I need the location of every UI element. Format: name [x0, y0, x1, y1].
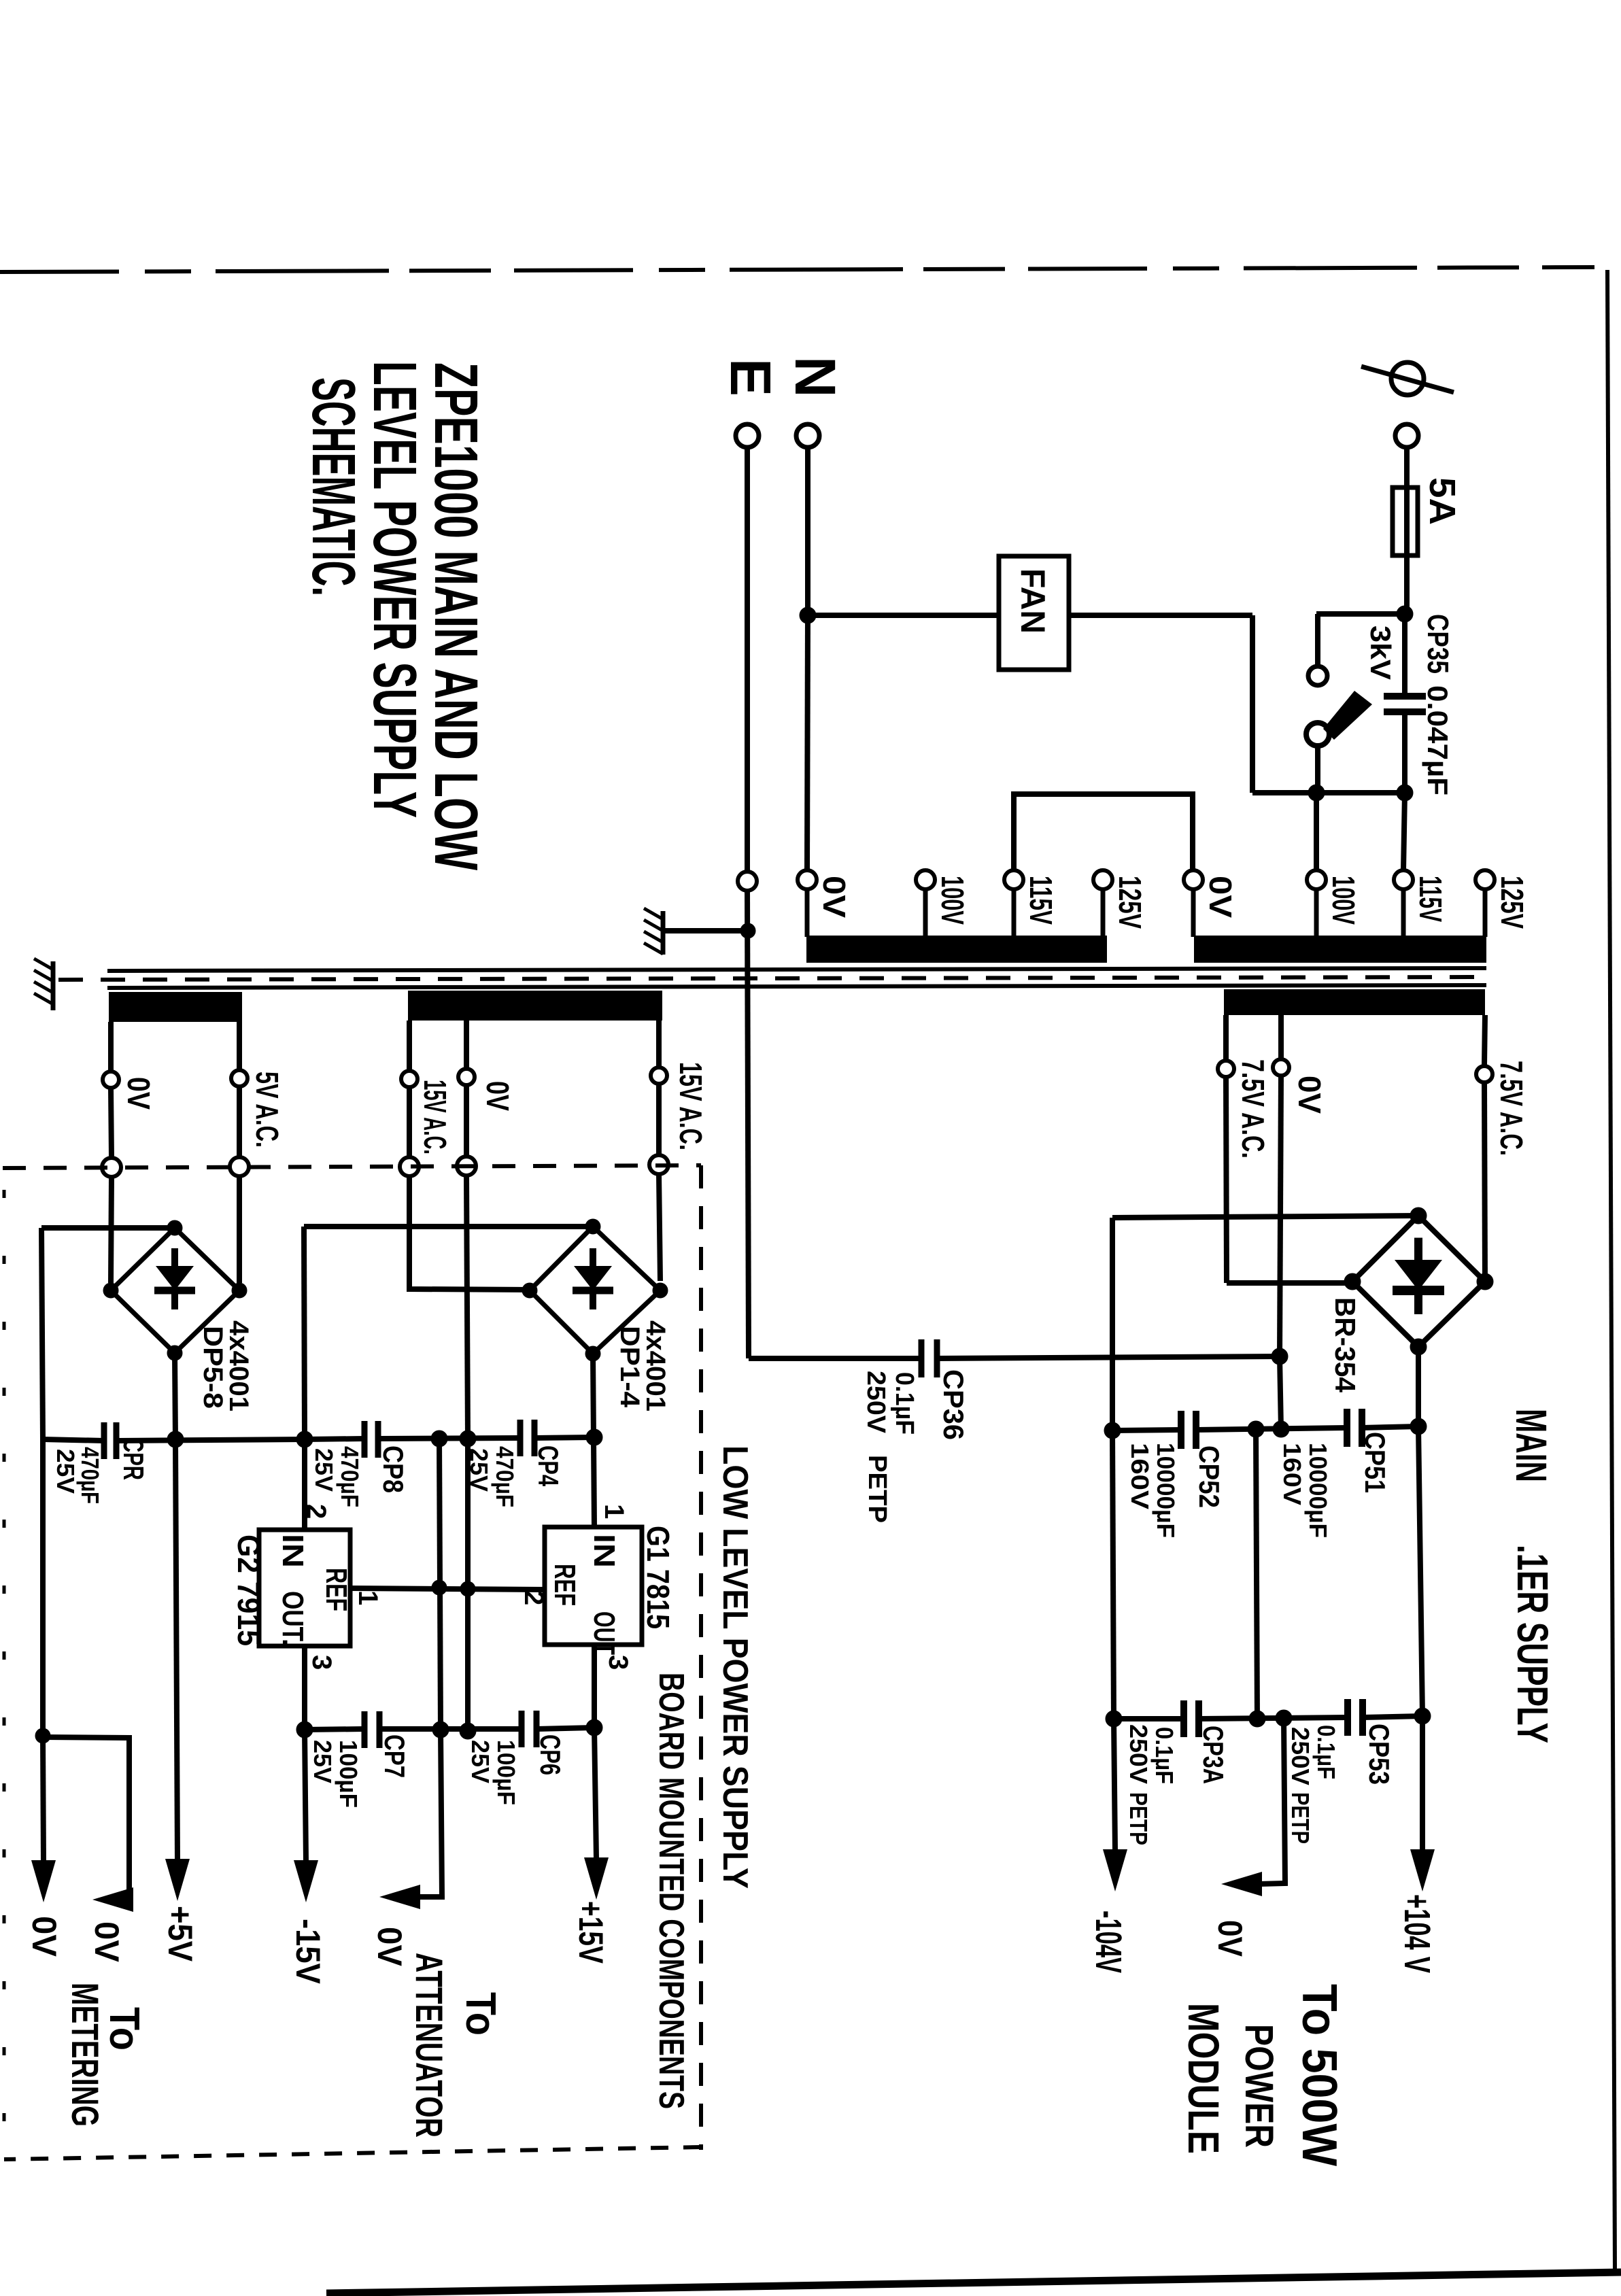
svg-text:15V A.C.: 15V A.C. — [417, 1080, 453, 1154]
svg-text:PETP: PETP — [863, 1455, 891, 1523]
bridge rectifier DP5-8 — [111, 1228, 239, 1353]
tap 7.5V A.C. right terminal — [1476, 1066, 1492, 1082]
wire L to junction — [1404, 446, 1410, 614]
svg-text:7.5V A.C.: 7.5V A.C. — [1494, 1061, 1529, 1156]
svg-text:125V: 125V — [1112, 876, 1148, 929]
svg-text:BOARD MOUNTED COMPONENTS: BOARD MOUNTED COMPONENTS — [651, 1673, 691, 2109]
bridge rectifier BR354 — [1352, 1216, 1485, 1347]
wire rail CPR to G2 — [118, 1439, 305, 1441]
node bridge corner — [653, 1283, 668, 1298]
wire fan to corner — [1069, 613, 1252, 618]
wire tap 115V stub — [1401, 889, 1406, 937]
wire -15V down — [305, 1730, 306, 1862]
svg-text:SCHEMATIC.: SCHEMATIC. — [299, 377, 367, 596]
svg-text:LOW LEVEL POWER SUPPLY: LOW LEVEL POWER SUPPLY — [715, 1445, 755, 1889]
svg-text:E: E — [719, 358, 783, 396]
wire tap 100V stub — [923, 889, 928, 937]
svg-text:REF: REF — [320, 1568, 353, 1611]
bridge rectifier DP1-4 — [530, 1227, 660, 1354]
node 0V rail b — [1273, 1421, 1289, 1437]
arrow 0V attenuator — [379, 1885, 420, 1909]
wire junction to CP35 — [1402, 614, 1407, 696]
svg-text:.1ER SUPPLY: .1ER SUPPLY — [1508, 1545, 1557, 1743]
node +15V out — [586, 1719, 602, 1736]
svg-text:5A: 5A — [1422, 477, 1463, 525]
node ref a — [432, 1580, 447, 1595]
wire CP6 to G1 out — [536, 1728, 594, 1729]
svg-text:5V A.C.: 5V A.C. — [250, 1072, 285, 1148]
tap 125V primary terminal — [1475, 870, 1495, 889]
svg-text:CP52: CP52 — [1193, 1445, 1225, 1508]
wire bridge neg out left — [1112, 1216, 1418, 1218]
regulator G1 7815 — [545, 1527, 642, 1645]
wire N down — [805, 446, 810, 615]
wire CP36 to 0V node — [937, 1356, 1280, 1358]
wire pin to bridge ac1 — [111, 1177, 112, 1283]
transformer T1 secondary 0-5V winding — [109, 992, 242, 1022]
connector pin — [102, 1158, 121, 1177]
wire tap 100V stub — [1314, 889, 1319, 937]
arrow 0V metering — [31, 1860, 56, 1902]
wire E to CP36 row — [747, 891, 749, 1358]
svg-text:160V: 160V — [1126, 1443, 1154, 1509]
wire 0V to pin — [464, 1085, 469, 1156]
wire 15V to pin — [407, 1087, 412, 1157]
capacitor CP4 470uF 25V — [520, 1420, 534, 1456]
tap 115V primary terminal — [1394, 870, 1413, 889]
wire +5V down — [175, 1439, 177, 1860]
svg-text:CP7: CP7 — [379, 1734, 411, 1778]
transformer T1 primary winding A — [806, 936, 1107, 963]
wire pin to bridge ac2 — [237, 1176, 242, 1283]
svg-text:100µF: 100µF — [492, 1740, 520, 1805]
wire CP3A to CP53 — [1199, 1717, 1348, 1719]
node bridge corner — [232, 1283, 247, 1298]
fan motor FAN — [999, 556, 1069, 670]
wire tap 0V stub — [805, 889, 810, 937]
svg-text:To: To — [101, 2007, 148, 2051]
wire CP35 to node — [1402, 712, 1407, 793]
svg-text:100V: 100V — [1326, 876, 1361, 925]
connector pin — [649, 1155, 668, 1174]
svg-text:DP5-8: DP5-8 — [198, 1326, 228, 1409]
capacitor CP52 10000uF 160V — [1181, 1411, 1196, 1449]
node 0V bottom a — [1249, 1711, 1265, 1727]
svg-text:160V: 160V — [1278, 1443, 1306, 1505]
wire 0V mid stub — [1278, 1015, 1284, 1058]
svg-text:25V: 25V — [310, 1448, 338, 1492]
tap 15V A.C. right terminal — [651, 1067, 667, 1084]
connector pin — [230, 1157, 249, 1176]
svg-text:0.1µF: 0.1µF — [1150, 1727, 1178, 1784]
svg-text:CP6: CP6 — [534, 1734, 566, 1775]
terminal L — [1395, 424, 1418, 447]
wire 5V stub — [237, 1022, 242, 1069]
wire +104V vertical — [1418, 1426, 1422, 1716]
regulator G2 7915 — [259, 1530, 350, 1646]
wire 15V right stub — [656, 1021, 662, 1066]
wire pin 15V to bridge ac2 — [659, 1174, 660, 1281]
svg-text:0.1µF: 0.1µF — [890, 1372, 919, 1435]
svg-text:N: N — [783, 356, 847, 398]
svg-text:470µF: 470µF — [76, 1447, 104, 1504]
node bridge corner — [1410, 1339, 1427, 1355]
svg-text:To 500W: To 500W — [1292, 1984, 1346, 2166]
svg-text:MODULE: MODULE — [1179, 2003, 1228, 2154]
svg-text:POWER: POWER — [1237, 2024, 1281, 2148]
transformer T1 secondary 7.5-0-7.5V winding — [1224, 989, 1485, 1015]
wire rail to CP3A — [1114, 1716, 1184, 1721]
ground screen symbol — [34, 959, 53, 1010]
node 0V bottom b — [1276, 1710, 1292, 1726]
capacitor CP35 0.047uF 3kV — [1384, 696, 1426, 712]
svg-text:CP35: CP35 — [1421, 614, 1454, 674]
svg-text:100V: 100V — [935, 876, 970, 925]
wire E to CP36 — [749, 1356, 921, 1361]
wire +104V to arrow — [1420, 1716, 1425, 1851]
tap 5V A.C. terminal — [231, 1070, 248, 1086]
wire to chassis ground — [663, 928, 748, 933]
wire node row — [1252, 790, 1405, 795]
border bottom line — [326, 2272, 1621, 2293]
capacitor CP53 0.1uF 250V — [1348, 1699, 1363, 1736]
svg-text:3: 3 — [603, 1655, 633, 1670]
svg-text:0V: 0V — [817, 876, 852, 918]
svg-text:0V: 0V — [480, 1081, 515, 1111]
svg-text:+104 V: +104 V — [1397, 1894, 1437, 1973]
arrow +5V — [165, 1859, 190, 1901]
svg-text:CP4: CP4 — [532, 1445, 564, 1486]
diode symbol DP5-8 — [154, 1248, 195, 1309]
fuse FS1 5A — [1393, 487, 1418, 555]
svg-text:PETP: PETP — [1125, 1792, 1153, 1845]
node bridge corner — [167, 1346, 182, 1360]
svg-text:250V: 250V — [1125, 1724, 1153, 1784]
node -104V rail — [1104, 1422, 1121, 1439]
wire to 115V tap — [1403, 793, 1405, 870]
tap 0V primary terminal — [798, 870, 817, 889]
svg-text:ZPE1000 MAIN AND LOW: ZPE1000 MAIN AND LOW — [422, 362, 490, 870]
svg-text:25V: 25V — [52, 1449, 80, 1494]
connector pin — [457, 1156, 476, 1176]
svg-text:CPR: CPR — [118, 1438, 150, 1480]
svg-text:0V: 0V — [1203, 876, 1238, 918]
node +104V bottom — [1414, 1708, 1431, 1724]
svg-text:FAN: FAN — [1014, 568, 1052, 634]
wire -104V to arrow — [1114, 1719, 1115, 1851]
svg-text:0V: 0V — [371, 1927, 409, 1967]
wire CP52 to CP51 — [1196, 1428, 1347, 1430]
svg-text:DP1-4: DP1-4 — [615, 1326, 645, 1408]
wire 15V to pin — [656, 1084, 662, 1155]
node +104V rail — [1410, 1418, 1427, 1435]
arrow +104V — [1410, 1849, 1435, 1891]
capacitor CP51 10000uF 160V — [1347, 1409, 1362, 1447]
wire to switch — [1316, 611, 1405, 617]
wire CP53 to +rail — [1363, 1716, 1422, 1717]
node 0V E junction — [1272, 1348, 1288, 1365]
wire G1 out down — [592, 1645, 597, 1728]
node -104V bottom — [1106, 1711, 1122, 1727]
wire bridge pos down — [1416, 1347, 1421, 1426]
svg-text:To: To — [457, 1992, 504, 2036]
wire 0V branch 2 — [43, 1737, 129, 1900]
arrow 0V metering 2 — [92, 1887, 133, 1912]
svg-text:G2 7915: G2 7915 — [231, 1535, 267, 1646]
svg-text:3: 3 — [307, 1655, 337, 1670]
wire 15V left stub — [407, 1021, 412, 1069]
wire 7.5V right stub — [1484, 1015, 1485, 1065]
tap 15V A.C. left terminal — [401, 1071, 417, 1087]
wire 0V down — [40, 1439, 46, 1736]
svg-text:115V: 115V — [1413, 876, 1448, 922]
wire 0V strut — [1256, 1429, 1257, 1719]
node L2 — [1397, 785, 1413, 801]
svg-text:25V: 25V — [466, 1740, 494, 1783]
svg-text:+15V: +15V — [572, 1901, 610, 1964]
wire -104V down — [1112, 1430, 1114, 1719]
svg-text:115V: 115V — [1023, 876, 1059, 925]
svg-text:0V: 0V — [1211, 1920, 1249, 1957]
wire fan corner down — [1250, 615, 1255, 793]
tap 125V primary terminal — [1093, 870, 1112, 889]
svg-text:470µF: 470µF — [336, 1446, 364, 1507]
capacitor CP36 0.1uF 250V — [921, 1339, 937, 1377]
wire tap 125V stub — [1483, 889, 1488, 937]
node bridge corner — [522, 1283, 537, 1298]
node L1 — [1397, 606, 1413, 622]
wire neg rail down — [41, 1228, 43, 1439]
transformer T1 core — [58, 968, 1486, 988]
border right line — [1607, 270, 1615, 2271]
node G2 in — [296, 1431, 313, 1447]
svg-text:IN: IN — [587, 1534, 621, 1568]
board boundary bottom — [4, 2147, 701, 2159]
node bridge corner — [167, 1220, 182, 1235]
wire 0V vertical a — [439, 1439, 441, 1730]
wire rail G2 out to CP7 — [305, 1729, 364, 1730]
svg-text:0.047µF: 0.047µF — [1422, 685, 1454, 795]
svg-text:IN: IN — [276, 1534, 309, 1568]
wire CP8 to CP4 — [378, 1438, 520, 1439]
wire to fan — [808, 613, 999, 618]
svg-text:250V: 250V — [1286, 1727, 1314, 1785]
wire CP7 to CP6 — [379, 1726, 522, 1732]
svg-text:OUT.: OUT. — [276, 1591, 309, 1645]
svg-text:250V: 250V — [861, 1371, 890, 1434]
wire CP4 to G1 in — [534, 1437, 594, 1438]
svg-text:3kV: 3kV — [1365, 626, 1397, 680]
wire 0V stub — [464, 1021, 469, 1067]
switch S1 pivot contact — [1306, 723, 1329, 746]
wire bridge neg out — [41, 1225, 175, 1231]
wire 7.5V right to bridge ac2 — [1484, 1082, 1485, 1282]
wire 0V pin down to rail — [466, 1176, 468, 1439]
wire G2 in — [302, 1439, 307, 1530]
wire 7.5V left down — [1226, 1077, 1227, 1283]
node SW2 — [1308, 785, 1325, 801]
wire 0V attenuator — [420, 1730, 442, 1897]
terminal E — [736, 424, 759, 447]
svg-text:METERING: METERING — [64, 1983, 107, 2127]
board boundary left — [3, 1190, 6, 2142]
svg-text:125V: 125V — [1495, 876, 1530, 929]
svg-text:1: 1 — [599, 1504, 629, 1519]
wire G2 out down — [302, 1646, 307, 1730]
wire to 100V tap — [1314, 793, 1319, 870]
wire switch bottom — [1315, 746, 1320, 793]
svg-text:0V: 0V — [1292, 1076, 1327, 1114]
wire 7.5V left stub — [1223, 1015, 1229, 1059]
svg-text:BR-354: BR-354 — [1329, 1297, 1361, 1393]
wire 5V to pin — [237, 1086, 242, 1157]
svg-text:2: 2 — [519, 1590, 549, 1605]
wire bridge neg out left — [304, 1224, 593, 1229]
node bridge corner — [1410, 1207, 1427, 1224]
wire 0V to pin — [111, 1088, 112, 1158]
svg-text:CP36: CP36 — [938, 1369, 970, 1440]
wire to CPR — [43, 1439, 104, 1441]
capacitor CP8 470uF 25V — [364, 1421, 378, 1458]
node G1 in — [586, 1429, 602, 1445]
svg-text:470µF: 470µF — [491, 1446, 519, 1507]
wire pin 15V to bridge ac1 — [409, 1176, 530, 1290]
svg-text:CP3A: CP3A — [1197, 1726, 1229, 1784]
svg-text:G1 7815: G1 7815 — [641, 1526, 676, 1629]
svg-text:0.1µF: 0.1µF — [1312, 1725, 1340, 1779]
wire CP51 to +rail — [1362, 1426, 1418, 1428]
capacitor CP6 100uF 25V — [522, 1711, 536, 1747]
wire bridge pos out down — [175, 1353, 175, 1439]
tap 100V primary terminal — [916, 870, 935, 889]
wire +15V down — [594, 1728, 596, 1859]
node 0V rail b — [460, 1723, 476, 1739]
svg-text:0V: 0V — [88, 1921, 126, 1963]
svg-text:CP8: CP8 — [377, 1445, 409, 1493]
node E ground — [740, 923, 755, 938]
ground chassis symbol — [644, 908, 663, 955]
wire 0V vertical b — [465, 1439, 471, 1731]
node N1 — [800, 607, 816, 623]
node bridge corner — [103, 1283, 118, 1298]
node 0V branch — [35, 1728, 50, 1743]
node ref b — [460, 1581, 475, 1596]
tap 7.5V A.C. left terminal — [1218, 1061, 1234, 1077]
live phase terminal symbol (phi) — [1361, 362, 1454, 395]
node 0V rail a — [432, 1721, 449, 1738]
arrow -104V — [1103, 1849, 1127, 1891]
capacitor CP3A 0.1uF 250V — [1184, 1700, 1199, 1737]
node bridge corner — [1477, 1273, 1493, 1290]
wire to bridge ac1 — [1227, 1280, 1352, 1286]
board boundary top — [3, 1165, 701, 1168]
wire jumper 115V-0V — [1014, 794, 1193, 870]
wire switch top — [1315, 614, 1320, 666]
node bridge corner — [585, 1346, 600, 1361]
node bridge corner — [585, 1219, 600, 1234]
node -15V out — [296, 1721, 313, 1738]
svg-text:LEVEL POWER SUPPLY: LEVEL POWER SUPPLY — [360, 361, 428, 818]
svg-text:CP51: CP51 — [1359, 1432, 1391, 1493]
tap 115V primary terminal — [1004, 870, 1023, 889]
capacitor CPR 470uF 25V — [104, 1422, 116, 1459]
node 0V a — [431, 1430, 447, 1447]
svg-text:1: 1 — [353, 1590, 383, 1605]
wire tap 0V stub — [1191, 889, 1196, 937]
svg-text:2: 2 — [301, 1504, 331, 1519]
wire neg down to G2 in — [304, 1227, 305, 1439]
wire 0V down — [1280, 1076, 1281, 1356]
node 0V b — [460, 1430, 476, 1447]
tap 0V terminal mid — [458, 1069, 475, 1085]
switch S1 arm — [1323, 691, 1372, 740]
svg-text:PETP: PETP — [1286, 1792, 1314, 1844]
wire REF line — [350, 1588, 545, 1590]
node 0V rail a — [1248, 1421, 1264, 1437]
svg-text:10000µF: 10000µF — [1152, 1443, 1180, 1538]
wire 0V to rail — [1280, 1356, 1281, 1429]
tap 0V primary terminal — [1184, 870, 1203, 889]
svg-text:0V: 0V — [121, 1077, 156, 1110]
transformer T1 primary winding B — [1194, 936, 1486, 963]
svg-text:-15V: -15V — [289, 1919, 327, 1985]
capacitor CP7 100uF 25V — [364, 1711, 379, 1748]
tap 0V mid terminal — [1273, 1059, 1289, 1076]
connector pin — [400, 1157, 419, 1176]
terminal E screen pin — [738, 872, 757, 891]
wire E down — [745, 446, 750, 872]
svg-text:ATTENUATOR: ATTENUATOR — [408, 1953, 451, 2138]
arrow +15V — [584, 1857, 609, 1900]
svg-text:+5V: +5V — [161, 1906, 199, 1962]
node +5V rail — [167, 1431, 184, 1447]
svg-text:25V: 25V — [309, 1740, 337, 1783]
node bridge corner — [1344, 1273, 1361, 1290]
wire to CP8 — [305, 1439, 364, 1439]
svg-text:REF: REF — [548, 1564, 581, 1606]
wire rail to CP52 — [1112, 1430, 1181, 1430]
diode symbol DP1-4 — [573, 1248, 613, 1309]
tap 0V terminal — [103, 1072, 119, 1088]
wire 0V stub — [108, 1022, 114, 1070]
svg-text:7.5V A.C.: 7.5V A.C. — [1235, 1059, 1271, 1159]
svg-text:0V: 0V — [25, 1916, 63, 1957]
wire 0V to arrow — [1259, 1718, 1285, 1884]
wire 0V to arrow — [43, 1736, 44, 1862]
svg-text:CP53: CP53 — [1363, 1724, 1395, 1785]
terminal N — [796, 424, 819, 447]
svg-text:100µF: 100µF — [335, 1740, 362, 1808]
svg-text:10000µF: 10000µF — [1304, 1443, 1332, 1538]
wire neg down — [1110, 1218, 1115, 1430]
switch S1 top contact — [1308, 666, 1327, 685]
transformer T1 secondary 15-0-15V winding — [408, 991, 662, 1021]
tap 100V primary terminal — [1307, 870, 1326, 889]
svg-text:15V A.C.: 15V A.C. — [673, 1062, 709, 1150]
diode symbol BR354 — [1393, 1238, 1444, 1315]
arrow -15V — [294, 1860, 318, 1902]
wire bridge pos down to G1 in — [593, 1354, 594, 1527]
arrow 0V power module — [1221, 1872, 1262, 1896]
board boundary right — [699, 1165, 703, 2150]
wire N to 0V tap — [807, 615, 808, 870]
wire tap 115V stub — [1012, 889, 1017, 937]
wire tap 125V stub — [1101, 889, 1106, 937]
border top dash-dot line — [0, 267, 1594, 272]
svg-text:-104V: -104V — [1088, 1911, 1129, 1973]
svg-text:MAIN: MAIN — [1507, 1409, 1556, 1482]
